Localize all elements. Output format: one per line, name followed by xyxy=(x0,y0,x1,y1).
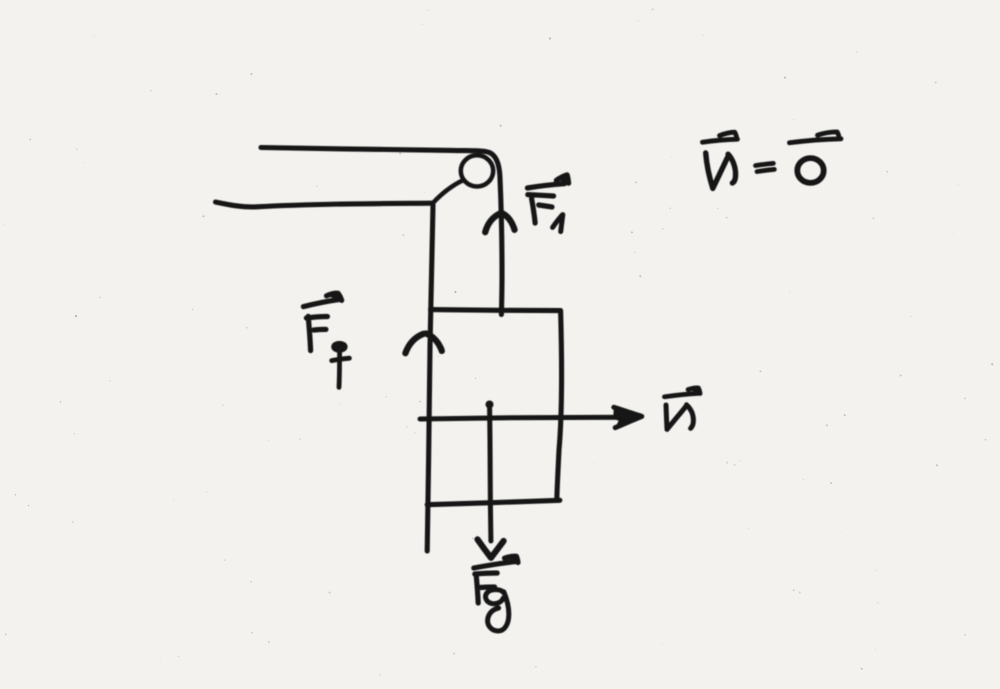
label Fg subscript g xyxy=(486,590,509,631)
wire: table side wall below corner xyxy=(427,205,433,551)
wire: table corner diagonal up to pulley xyxy=(433,180,464,203)
force arrow Fg head xyxy=(478,539,504,557)
equation N vector bar xyxy=(702,132,737,142)
label Fg vector bar xyxy=(505,556,518,562)
label F1 vector bar xyxy=(557,175,569,183)
force arrow Fg shaft xyxy=(490,408,491,541)
block xyxy=(427,310,561,505)
force arrow F1 head (on rope) xyxy=(485,213,514,232)
label F1 subscript 1 xyxy=(553,215,563,232)
label F1 letter F xyxy=(528,195,554,223)
force arrow Ff head xyxy=(405,334,441,354)
label N vector bar xyxy=(689,388,700,393)
label N letter N xyxy=(666,405,693,430)
equation equals sign xyxy=(756,163,775,171)
node: block centre dot xyxy=(486,401,494,409)
equation letter O (zero vector) xyxy=(797,158,823,183)
pulley xyxy=(461,155,493,186)
force arrow N head xyxy=(613,407,642,427)
equation letter N xyxy=(706,153,736,188)
label Fg letter F xyxy=(475,573,497,603)
force arrow N shaft xyxy=(420,417,629,419)
label Ff vector bar xyxy=(327,293,342,300)
label Ff letter F xyxy=(306,316,327,350)
equation O vector bar xyxy=(789,132,841,143)
wire: rope along table top, over pulley, down to block xyxy=(261,148,502,315)
wire: table lower edge xyxy=(216,202,433,207)
label Ff subscript f xyxy=(334,343,346,350)
